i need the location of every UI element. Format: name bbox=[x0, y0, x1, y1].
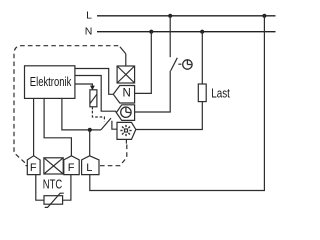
dashed thermostat housing outline diagonal into crossed box stub bbox=[120, 47, 126, 54]
svg-text:N: N bbox=[122, 88, 130, 100]
svg-text:L: L bbox=[86, 10, 92, 22]
wire from switch junction down to terminal L bbox=[89, 130, 91, 156]
wire from time switch down and left to clock terminal tag bbox=[135, 71, 171, 112]
svg-text:L: L bbox=[86, 162, 92, 174]
wire from N rail down to load bbox=[201, 32, 203, 84]
wire from L rail down right side to bottom and to L terminal tag bbox=[90, 16, 265, 191]
junction dot on L at x=170 bbox=[168, 14, 172, 18]
box Elektronik bbox=[25, 66, 75, 99]
junction dot on N at x=151 bbox=[149, 30, 153, 34]
junction dot on L at x=264 bbox=[262, 14, 266, 18]
svg-text:N: N bbox=[85, 25, 93, 37]
time switch clock symbol bbox=[183, 60, 192, 69]
internal switch lever bbox=[101, 118, 111, 130]
resistor Last (load) bbox=[198, 84, 206, 102]
wire w1 from Elektronik to N tag bbox=[75, 69, 113, 95]
arrow head into resistor bbox=[90, 86, 95, 91]
svg-text:Last: Last bbox=[211, 87, 230, 101]
terminal crossed box bottom (not used) bbox=[44, 158, 63, 174]
time switch actuator dashed link bbox=[178, 63, 181, 65]
wire from Elektronik down to terminal F1 bbox=[33, 98, 35, 156]
dashed mechanical link from resistor to switch lever bbox=[91, 107, 93, 110]
svg-text:NTC: NTC bbox=[43, 177, 62, 192]
wire w3 from Elektronik to setpoint resistor with arrow bbox=[75, 84, 93, 87]
dashed thermostat housing outline bottom right bbox=[100, 143, 127, 166]
wire N rail bbox=[97, 31, 276, 33]
wire from F2 down to NTC bbox=[63, 175, 71, 201]
dashed thermostat housing outline left/top bbox=[14, 46, 118, 166]
wire from Elektronik down to internal switch bbox=[62, 98, 101, 129]
wire L rail bbox=[97, 15, 276, 17]
terminal tag F1 bbox=[27, 156, 40, 175]
terminal tag sun bbox=[117, 122, 136, 139]
junction dot on N at x=202 bbox=[200, 30, 204, 34]
junction dot internal switch wire bbox=[88, 128, 92, 132]
wire from L rail down to time switch bbox=[169, 16, 171, 57]
time switch contact lever bbox=[171, 58, 178, 71]
terminal tag clock bbox=[116, 105, 134, 121]
svg-text:F: F bbox=[68, 162, 75, 174]
terminal tag F2 bbox=[64, 156, 79, 175]
terminal tag L bbox=[82, 156, 99, 175]
svg-text:F: F bbox=[30, 162, 37, 174]
stub below sun tag bbox=[125, 139, 127, 143]
wire from Elektronik down to terminal F2 bbox=[44, 98, 71, 156]
wire w2 from Elektronik to clock tag bbox=[75, 76, 116, 113]
resistor setpoint (variable) bbox=[90, 90, 97, 107]
terminal crossed box top (not used) bbox=[117, 66, 135, 83]
wire from load down and left to sun terminal tag bbox=[136, 102, 203, 130]
wire from F1 down to NTC bbox=[36, 175, 44, 201]
stub above crossed box bbox=[125, 54, 127, 66]
thermistor NTC bbox=[44, 193, 64, 207]
terminal tag N bbox=[113, 86, 134, 104]
svg-text:Elektronik: Elektronik bbox=[30, 75, 72, 89]
internal switch fixed contact to sun tag bbox=[112, 121, 117, 129]
wire from N rail down to N terminal tag bbox=[135, 32, 152, 94]
